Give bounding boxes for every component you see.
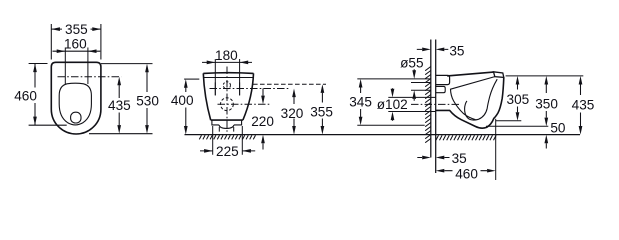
side view: inlet pipe lines left of wall	[411, 83, 431, 91]
side view: ground hatching under pan	[436, 135, 496, 140]
side view: dimension 345 bottom extension line	[357, 124, 424, 126]
side view: dimension 35 top line and arrows	[417, 48, 449, 50]
side view: dimension o102 arrows	[392, 88, 394, 121]
side view: flush pipe boss	[436, 75, 450, 84]
svg-text:225: 225	[216, 144, 239, 159]
front view: fixing holes centerline extended right (320 ref)	[210, 88, 289, 90]
plan view: dimension 460 line and arrows	[34, 64, 36, 126]
side view: dimension 35 bottom line and arrows	[417, 157, 449, 159]
front view: fixing hole cross left	[214, 82, 216, 95]
side view: dimension 435 line and arrows	[580, 85, 582, 127]
plan view: dimension 160 line and outside arrows	[53, 50, 101, 52]
front view: dimension 400 tick	[184, 78, 199, 80]
side view: pan front extension line (460)	[495, 119, 497, 180]
svg-text:320: 320	[281, 106, 304, 121]
front view: outlet hidden lines to floor	[219, 127, 233, 134]
svg-text:460: 460	[14, 88, 37, 103]
front view: outlet centerline right (220 ref)	[218, 103, 271, 105]
front view: dimension 180 line and outside arrows	[202, 61, 252, 63]
ground line	[185, 134, 581, 136]
side view: dimension 345 line and arrows	[360, 87, 362, 118]
svg-text:ø55: ø55	[400, 55, 423, 70]
front view: dimension 320 arrows	[293, 97, 295, 126]
side view: outlet centerline (dash-dot)	[411, 103, 460, 105]
front view: pan outline	[203, 73, 253, 120]
front view: rim level hidden line right (355 ref)	[253, 83, 326, 85]
svg-text:400: 400	[171, 93, 194, 108]
front view: dimension 225 extension lines	[213, 126, 243, 155]
svg-text:180: 180	[215, 48, 238, 63]
side view: wall hatching	[425, 67, 431, 143]
side view: under-rim seam line	[451, 77, 495, 120]
plan view: dimension 530 line and arrows	[146, 72, 148, 125]
side view: pan back line	[435, 40, 437, 174]
svg-text:305: 305	[507, 92, 530, 107]
plan view: dimension 355 extension lines	[51, 24, 101, 60]
side view: pan bottom front extension line (305 ref)	[496, 120, 522, 122]
side view: shroud bottom extension line (50 ref)	[486, 125, 548, 127]
front view: dimension 225 line and outside arrows	[200, 150, 255, 152]
side view: outlet pipe lines (o102)	[388, 97, 435, 111]
svg-text:435: 435	[108, 98, 131, 113]
plan view: dimension 460 ticks	[29, 64, 67, 126]
svg-text:ø102: ø102	[377, 97, 408, 112]
side view: pan front face and bottom outline	[436, 77, 504, 128]
svg-text:435: 435	[572, 97, 595, 112]
svg-text:50: 50	[550, 120, 566, 135]
svg-text:345: 345	[349, 94, 372, 109]
svg-text:350: 350	[535, 97, 558, 112]
front view: vertical centerline (dash-dot)	[226, 67, 228, 134]
side view: mounting bracket block	[436, 86, 446, 92]
svg-text:355: 355	[65, 22, 88, 37]
front view: dimension 400 line and arrows	[185, 87, 187, 126]
side view: inlet pipe top extension line (345 / o55 ref)	[357, 78, 431, 80]
side view: bowl channel hook	[465, 79, 498, 120]
svg-text:355: 355	[310, 105, 333, 120]
side view: top extension line (rim level)	[506, 75, 584, 77]
plan view: inner bowl outline	[59, 83, 91, 125]
svg-text:460: 460	[455, 166, 478, 181]
plan view: fixing holes centerline (dash-dot)	[58, 76, 122, 78]
side view: dimension 305 line and arrows	[517, 85, 519, 113]
front view: fixing hole extension lines	[215, 59, 239, 95]
side view: dimension 460 line and arrows	[444, 170, 487, 172]
side view: pan front tip face	[494, 72, 504, 78]
plan view: pan outer outline	[51, 62, 101, 134]
front view: water inlet hidden circle	[223, 82, 230, 89]
svg-text:35: 35	[449, 43, 464, 58]
front view: rim inner line	[204, 77, 253, 79]
plan view: pan bottom extension line	[89, 133, 153, 135]
front view: outlet hidden circle	[221, 98, 234, 111]
front view: dimension 355 arrows	[321, 93, 323, 126]
front view: fixing hole cross right	[239, 82, 241, 95]
plan view: dimension 355 line and arrows	[51, 28, 101, 30]
side view: dimension 350 line and arrows	[545, 85, 547, 118]
side view: dimension 50 bottom arrow	[545, 143, 547, 148]
ground hatching under front view	[199, 135, 255, 139]
svg-text:160: 160	[64, 36, 87, 51]
plan view: drain hole	[71, 112, 81, 123]
svg-text:530: 530	[136, 94, 159, 109]
front view: dimension 220 arrows	[262, 89, 264, 150]
svg-text:220: 220	[251, 114, 274, 129]
side view: wall line	[430, 40, 432, 158]
side view: pan rim top line	[447, 72, 493, 76]
plan view: pan top extension line for 530	[101, 63, 153, 65]
front view: base bottom line and outlet bump	[212, 120, 242, 128]
plan view: dimension 435 line and arrows	[118, 85, 120, 125]
svg-text:35: 35	[452, 151, 467, 166]
plan view: fixing hole extension lines	[65, 48, 88, 85]
side view: dimension o55 arrows	[413, 69, 415, 101]
